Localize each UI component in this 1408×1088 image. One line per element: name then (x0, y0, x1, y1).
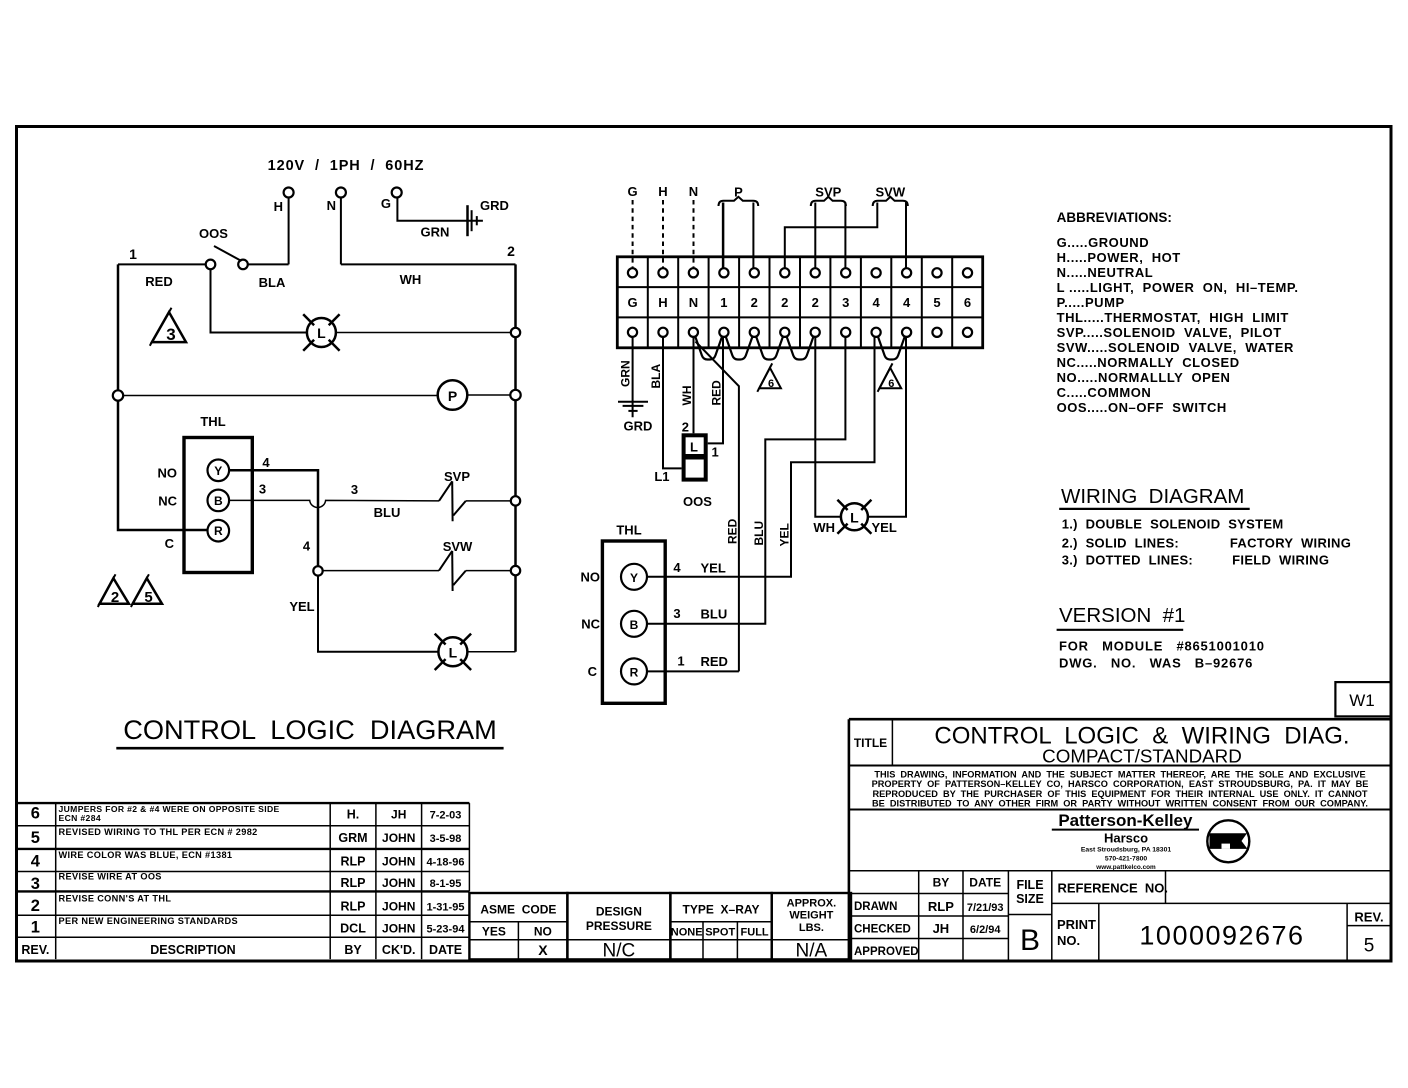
jumper 9-10 (878, 337, 905, 360)
svg-text:NC.....NORMALLY CLOSED: NC.....NORMALLY CLOSED (1057, 355, 1240, 370)
node junction on 2 (511, 328, 520, 337)
wire N diagonal to RED riser (696, 342, 739, 672)
svg-text:2: 2 (781, 295, 788, 310)
svg-text:NO: NO (534, 925, 552, 939)
svg-text:N: N (327, 198, 336, 213)
svg-text:JOHN: JOHN (382, 922, 415, 936)
svg-text:TYPE X–RAY: TYPE X–RAY (683, 903, 760, 917)
svg-text:JH: JH (391, 808, 406, 822)
terminal 4 bottom (872, 328, 881, 337)
terminal N top (689, 268, 698, 277)
svg-text:C.....COMMON: C.....COMMON (1057, 385, 1152, 400)
svg-text:REV.: REV. (21, 943, 49, 957)
svg-text:G.....GROUND: G.....GROUND (1057, 235, 1150, 250)
wire node2 vertical (514, 264, 517, 651)
svg-text:www.pattkelco.com: www.pattkelco.com (1095, 864, 1156, 871)
svg-text:1.) DOUBLE SOLENOID SYSTEM: 1.) DOUBLE SOLENOID SYSTEM (1062, 517, 1284, 532)
svg-text:GRN: GRN (421, 225, 450, 240)
wire node1 to OOS (118, 263, 206, 265)
terminal H top (658, 268, 667, 277)
terminal R (208, 520, 230, 542)
svg-text:APPROVED: APPROVED (854, 946, 919, 958)
svg-text:G: G (627, 295, 637, 310)
svg-text:East Stroudsburg, PA 18301: East Stroudsburg, PA 18301 (1081, 847, 1171, 854)
wire lamp to node2 (336, 332, 511, 334)
revision triangle 3 (152, 312, 186, 342)
svg-text:REV.: REV. (1354, 910, 1383, 925)
svg-text:L: L (690, 440, 698, 455)
svg-text:DATE: DATE (969, 876, 1001, 890)
svg-text:BLA: BLA (649, 364, 663, 389)
svg-text:BLU: BLU (752, 521, 766, 546)
svg-text:NC: NC (581, 617, 600, 632)
terminal G top (628, 268, 637, 277)
wire SVP right to term 3 (844, 203, 846, 269)
svg-text:Y: Y (214, 464, 222, 478)
wire lamp to node2 (468, 651, 516, 653)
svg-text:RLP: RLP (928, 899, 954, 914)
svg-text:DATE: DATE (429, 943, 462, 957)
title block lower grid (918, 871, 920, 961)
terminal G bottom (628, 328, 637, 337)
svg-text:3: 3 (259, 482, 266, 497)
revision triangle 6 right (880, 368, 902, 388)
terminal 2 bottom (811, 328, 820, 337)
svg-text:3: 3 (351, 482, 358, 497)
svg-text:REVISED WIRING TO THL PER ECN: REVISED WIRING TO THL PER ECN # 2982 (59, 827, 258, 837)
svg-text:RLP: RLP (341, 900, 366, 914)
svg-text:LBS.: LBS. (799, 922, 824, 934)
block ASME CODE (469, 893, 567, 959)
revision triangle 2 (100, 578, 129, 604)
ground GRD bottom (618, 401, 648, 403)
jumper 4-5 (726, 337, 752, 360)
svg-text:P: P (448, 388, 457, 404)
svg-text:DESIGN: DESIGN (596, 905, 642, 919)
svg-text:4-18-96: 4-18-96 (427, 857, 465, 869)
terminal 1 bottom (719, 328, 728, 337)
svg-text:5: 5 (933, 295, 940, 310)
svg-text:H.....POWER, HOT: H.....POWER, HOT (1057, 250, 1181, 265)
wire to SVW (323, 570, 439, 572)
svg-text:SVP: SVP (444, 469, 470, 484)
svg-text:PER NEW ENGINEERING STANDARDS: PER NEW ENGINEERING STANDARDS (59, 916, 238, 926)
svg-text:2: 2 (507, 243, 515, 259)
svg-text:NONE: NONE (671, 927, 703, 939)
terminal B (208, 490, 230, 512)
svg-text:JOHN: JOHN (382, 900, 415, 914)
terminal H bottom (658, 328, 667, 337)
jumper 5-6 (756, 337, 783, 360)
svg-text:FOR MODULE #8651001010: FOR MODULE #8651001010 (1059, 639, 1265, 654)
svg-text:L: L (850, 509, 859, 525)
svg-text:Harsco: Harsco (1104, 831, 1148, 846)
svg-text:C: C (165, 536, 175, 551)
svg-text:N.....NEUTRAL: N.....NEUTRAL (1057, 265, 1154, 280)
zone W1 box (1335, 682, 1391, 716)
svg-text:RED: RED (145, 274, 172, 289)
lamp L pilot (841, 503, 868, 530)
svg-text:NO.: NO. (1057, 933, 1080, 948)
svg-text:1: 1 (677, 654, 684, 669)
svg-text:FULL: FULL (741, 927, 769, 939)
svg-text:ASME CODE: ASME CODE (480, 903, 556, 917)
svg-text:570-421-7800: 570-421-7800 (1105, 856, 1148, 863)
abbreviations list (1057, 235, 1299, 415)
svg-text:3: 3 (166, 325, 175, 344)
svg-text:5: 5 (31, 829, 40, 847)
switch OOS with lamp L1 (684, 435, 706, 479)
terminal B (621, 611, 647, 637)
svg-text:B: B (214, 494, 223, 508)
svg-text:N/C: N/C (603, 941, 636, 962)
terminal 2 bottom (750, 328, 759, 337)
svg-text:TITLE: TITLE (854, 736, 887, 750)
svg-text:B: B (630, 618, 639, 632)
legal paragraph (872, 769, 1369, 808)
svg-text:THL: THL (200, 414, 225, 429)
svg-text:DRAWN: DRAWN (854, 901, 897, 913)
wire term 2 to lamp WH (815, 337, 841, 517)
svg-text:7/21/93: 7/21/93 (967, 902, 1004, 914)
svg-text:X: X (538, 942, 548, 958)
svg-text:6/2/94: 6/2/94 (970, 924, 1001, 936)
svg-text:3-5-98: 3-5-98 (430, 833, 462, 845)
svg-text:OOS: OOS (199, 226, 228, 241)
svg-text:7-2-03: 7-2-03 (430, 810, 462, 822)
terminal N (336, 188, 346, 198)
svg-text:W1: W1 (1349, 691, 1375, 710)
terminal 3 bottom (841, 328, 850, 337)
wire down to lamp (318, 576, 438, 652)
svg-text:REFERENCE NO.: REFERENCE NO. (1058, 881, 1169, 896)
svg-text:PROPERTY OF PATTERSON–KELLEY: PROPERTY OF PATTERSON–KELLEY CO, HARSCO … (872, 779, 1369, 789)
svg-text:1: 1 (31, 919, 40, 937)
border frame (17, 127, 1392, 962)
wire SVP left to term 2 (814, 203, 816, 269)
svg-text:4: 4 (303, 539, 311, 554)
svg-text:ABBREVIATIONS:: ABBREVIATIONS: (1057, 210, 1172, 225)
svg-text:BLA: BLA (259, 275, 286, 290)
svg-text:RED: RED (726, 518, 740, 544)
wire 1 to OOS right (708, 337, 723, 444)
terminal 4 bottom (902, 328, 911, 337)
svg-text:CONTROL LOGIC DIAGRAM: CONTROL LOGIC DIAGRAM (123, 714, 497, 745)
svg-text:JOHN: JOHN (382, 876, 415, 890)
svg-text:3: 3 (673, 606, 680, 621)
svg-text:THL.....THERMOSTAT, HIGH LIM: THL.....THERMOSTAT, HIGH LIMIT (1057, 310, 1289, 325)
lamp L (hi-temp) (438, 637, 467, 666)
wire term 4 to lamp YEL (868, 337, 906, 517)
svg-text:OOS.....ON–OFF SWITCH: OOS.....ON–OFF SWITCH (1057, 400, 1227, 415)
terminal 2 bottom (780, 328, 789, 337)
svg-text:5-23-94: 5-23-94 (427, 924, 466, 936)
svg-text:BY: BY (344, 943, 362, 957)
svg-text:3: 3 (31, 875, 40, 893)
svg-text:4: 4 (31, 853, 41, 871)
svg-text:CK'D.: CK'D. (382, 943, 416, 957)
wire N down (340, 198, 342, 265)
svg-text:6: 6 (31, 805, 40, 823)
svg-text:5: 5 (144, 589, 152, 606)
terminal 2 top (750, 268, 759, 277)
svg-text:2: 2 (111, 589, 119, 606)
svg-text:3: 3 (842, 295, 849, 310)
svg-text:1-31-95: 1-31-95 (427, 902, 465, 914)
svg-text:Y: Y (630, 571, 638, 585)
wire SVW left to term 2 (785, 203, 878, 269)
svg-text:H: H (658, 295, 667, 310)
block TYPE X-RAY (670, 893, 771, 959)
terminal R (621, 658, 647, 684)
wire P left to term 1 (722, 203, 725, 269)
svg-text:THIS DRAWING, INFORMATION A: THIS DRAWING, INFORMATION AND THE SUBJEC… (874, 769, 1365, 779)
terminal Y (208, 460, 230, 482)
title block frame (849, 718, 1391, 721)
jumper 6-7 (787, 337, 814, 360)
svg-text:DESCRIPTION: DESCRIPTION (150, 943, 235, 957)
terminal 6 bottom (963, 328, 972, 337)
svg-text:NC: NC (158, 494, 177, 509)
svg-text:NO: NO (158, 466, 178, 481)
svg-text:RED: RED (701, 654, 728, 669)
svg-text:GRM: GRM (338, 831, 367, 845)
wire YEL: term 4 to THL Y (647, 337, 875, 577)
terminal 4 top (902, 268, 911, 277)
wire OOS to lamp L1 (211, 269, 307, 332)
svg-text:DCL: DCL (340, 922, 366, 936)
wire N to OOS top (693, 337, 695, 433)
wire node1 vertical (118, 264, 208, 530)
wiring notes (1062, 517, 1351, 568)
svg-text:SVW: SVW (443, 539, 473, 554)
terminal Y (621, 564, 647, 590)
svg-text:RED: RED (710, 380, 724, 406)
terminal 5 top (932, 268, 941, 277)
wire P right to term 2 (752, 203, 754, 269)
terminal 6 top (963, 268, 972, 277)
svg-text:H: H (274, 199, 283, 214)
svg-text:SPOT: SPOT (705, 927, 735, 939)
svg-text:YEL: YEL (872, 520, 897, 535)
svg-text:4: 4 (262, 455, 270, 470)
svg-text:WIRING DIAGRAM: WIRING DIAGRAM (1061, 485, 1244, 508)
svg-text:L: L (317, 325, 326, 341)
wire G to ground (397, 198, 483, 221)
terminal N bottom (689, 328, 698, 337)
svg-text:NO: NO (581, 570, 601, 585)
svg-text:H.: H. (347, 808, 360, 822)
wire SVW right to term 4 (905, 203, 907, 269)
svg-text:APPROX.: APPROX. (787, 898, 837, 910)
svg-text:N: N (689, 295, 698, 310)
block APPROX WEIGHT (772, 893, 851, 959)
lamp L (power) (307, 318, 336, 347)
wire OOS to H (248, 263, 289, 265)
svg-text:JH: JH (933, 921, 950, 936)
wire BLU: term 3 to THL B (647, 337, 845, 624)
wire pump to node2 (467, 394, 510, 396)
svg-text:WH: WH (813, 520, 835, 535)
svg-text:4: 4 (903, 295, 911, 310)
svg-text:WEIGHT: WEIGHT (789, 910, 833, 922)
svg-text:GRD: GRD (480, 198, 509, 213)
svg-text:C: C (588, 664, 598, 679)
svg-text:120V / 1PH / 60HZ: 120V / 1PH / 60HZ (268, 158, 425, 174)
wire RED to THL R (647, 670, 739, 672)
svg-text:B: B (1020, 924, 1040, 957)
svg-text:1: 1 (129, 246, 137, 262)
svg-text:G: G (628, 184, 638, 199)
svg-text:SVW.....SOLENOID VALVE, WATE: SVW.....SOLENOID VALVE, WATER (1057, 340, 1294, 355)
svg-text:REVISE WIRE AT OOS: REVISE WIRE AT OOS (59, 872, 162, 882)
svg-text:2: 2 (682, 420, 689, 435)
svg-text:PRESSURE: PRESSURE (586, 919, 652, 933)
svg-text:JOHN: JOHN (382, 855, 415, 869)
svg-text:6: 6 (888, 378, 894, 390)
svg-text:8-1-95: 8-1-95 (430, 878, 462, 890)
svg-text:JOHN: JOHN (382, 831, 415, 845)
svg-text:4: 4 (673, 560, 681, 575)
svg-text:OOS: OOS (683, 494, 712, 509)
terminal G (392, 188, 402, 198)
svg-text:5: 5 (1364, 936, 1375, 957)
svg-text:WH: WH (400, 272, 422, 287)
wire H to OOS L1 (663, 337, 682, 469)
svg-text:3.) DOTTED LINES: F: 3.) DOTTED LINES: FIELD WIRING (1062, 553, 1330, 568)
svg-text:6: 6 (964, 295, 971, 310)
svg-text:L1: L1 (654, 469, 669, 484)
svg-text:YEL: YEL (701, 561, 726, 576)
svg-text:REVISE CONN'S AT THL: REVISE CONN'S AT THL (59, 894, 172, 904)
svg-text:RLP: RLP (341, 876, 366, 890)
svg-text:DWG. NO. WAS B–92676: DWG. NO. WAS B–92676 (1059, 656, 1253, 671)
terminal H (284, 188, 294, 198)
svg-text:2.) SOLID LINES:: 2.) SOLID LINES: FACTORY WIRING (1062, 536, 1351, 551)
svg-text:RLP: RLP (341, 855, 366, 869)
svg-text:2: 2 (812, 295, 819, 310)
svg-text:H: H (658, 184, 667, 199)
terminal 2 top (811, 268, 820, 277)
svg-text:BLU: BLU (374, 505, 401, 520)
node junction on 1 (113, 390, 123, 400)
wire N to node2, label WH (341, 263, 516, 265)
svg-text:2: 2 (751, 295, 758, 310)
svg-text:6: 6 (768, 378, 774, 390)
revision table grid (15, 802, 469, 804)
svg-text:GRN: GRN (619, 360, 633, 387)
terminal 3 top (841, 268, 850, 277)
block DESIGN PRESSURE (567, 893, 670, 959)
svg-text:1000092676: 1000092676 (1139, 921, 1304, 951)
svg-text:1: 1 (712, 445, 719, 460)
svg-text:R: R (630, 665, 639, 679)
svg-text:R: R (214, 524, 223, 538)
svg-text:VERSION #1: VERSION #1 (1059, 604, 1185, 627)
terminal 5 bottom (932, 328, 941, 337)
wire G to ground (632, 337, 634, 417)
svg-text:YES: YES (482, 925, 506, 939)
ground GRD top (466, 205, 469, 236)
svg-text:THL: THL (616, 523, 641, 538)
svg-text:L: L (449, 644, 458, 660)
svg-text:COMPACT/STANDARD: COMPACT/STANDARD (1042, 746, 1242, 767)
svg-text:SIZE: SIZE (1016, 892, 1044, 906)
revision triangle 5 (133, 578, 162, 604)
svg-text:BLU: BLU (701, 607, 728, 622)
svg-text:G: G (381, 196, 391, 211)
terminal 2 top (780, 268, 789, 277)
svg-text:REPRODUCED BY THE PURCHASER: REPRODUCED BY THE PURCHASER OF THIS EQUI… (873, 789, 1368, 799)
svg-text:WH: WH (680, 386, 694, 406)
svg-text:ECN #284: ECN #284 (59, 813, 101, 823)
svg-text:BY: BY (933, 876, 950, 890)
revision triangle 6 left (759, 368, 781, 388)
svg-text:N/A: N/A (796, 941, 828, 962)
svg-text:4: 4 (872, 295, 880, 310)
svg-text:GRD: GRD (624, 419, 653, 434)
svg-text:BE DISTRIBUTED TO ANY OTHE: BE DISTRIBUTED TO ANY OTHER FIRM OR PART… (872, 799, 1368, 809)
svg-text:PRINT: PRINT (1057, 917, 1096, 932)
svg-text:YEL: YEL (289, 599, 314, 614)
svg-text:2: 2 (31, 897, 40, 915)
pump P (438, 380, 468, 410)
version notes (1059, 639, 1265, 671)
svg-text:P.....PUMP: P.....PUMP (1057, 295, 1125, 310)
terminal 4 top (872, 268, 881, 277)
svg-text:N: N (689, 184, 698, 199)
wire H down (288, 198, 290, 265)
logo PK (1207, 820, 1249, 862)
svg-text:FILE: FILE (1016, 878, 1043, 892)
jumper 3-4 (695, 337, 722, 360)
svg-text:Patterson-Kelley: Patterson-Kelley (1058, 811, 1193, 830)
svg-text:CHECKED: CHECKED (854, 924, 911, 936)
svg-text:SVP.....SOLENOID VALVE, PILO: SVP.....SOLENOID VALVE, PILOT (1057, 325, 1282, 340)
svg-text:NO.....NORMALLLY OPEN: NO.....NORMALLLY OPEN (1057, 370, 1231, 385)
wire to pump (123, 395, 438, 397)
svg-text:1: 1 (720, 295, 727, 310)
svg-text:L .....LIGHT, POWER ON, HI–: L .....LIGHT, POWER ON, HI–TEMP. (1057, 280, 1299, 295)
terminal 1 top (719, 268, 728, 277)
svg-text:YEL: YEL (778, 523, 792, 546)
svg-text:WIRE COLOR WAS BLUE, ECN #1381: WIRE COLOR WAS BLUE, ECN #1381 (59, 850, 233, 860)
terminal strip (617, 257, 982, 348)
